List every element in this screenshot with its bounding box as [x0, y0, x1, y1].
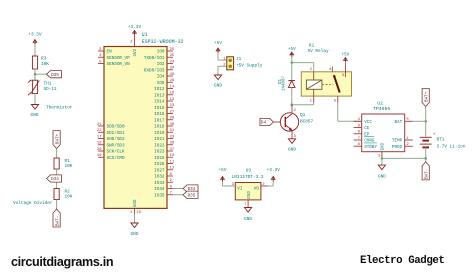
svg-text:PROG: PROG: [392, 145, 403, 150]
label K1: [309, 44, 315, 49]
svg-text:BAT+: BAT+: [424, 91, 429, 102]
svg-text:+3.3V: +3.3V: [267, 168, 281, 173]
relay pin 5 (switch): [334, 96, 338, 103]
pin 14 IO12: [154, 85, 175, 92]
pin 2 PROG (U2): [392, 143, 413, 150]
svg-text:D35: D35: [51, 73, 59, 78]
wire +5V to U3 VI: [223, 182, 236, 187]
svg-text:IO26: IO26: [154, 162, 165, 167]
label Q1: [300, 113, 306, 118]
junction collector node: [291, 103, 294, 106]
ground (U1): [131, 223, 139, 237]
svg-text:TXD0/IO1: TXD0/IO1: [144, 56, 165, 61]
label TP4056: [373, 106, 390, 112]
power +5V (relay coil): [288, 47, 296, 57]
svg-text:CE: CE: [364, 126, 370, 131]
pin 22 SDI/SD1: [97, 129, 125, 136]
svg-text:12: 12: [170, 167, 175, 171]
svg-text:14: 14: [170, 85, 175, 89]
pin 36 IO22: [154, 142, 175, 149]
wire battery to GND rail: [425, 147, 427, 162]
net label D4: [260, 118, 274, 125]
svg-text:+5V: +5V: [288, 47, 296, 52]
pin 8 CE (U2): [354, 124, 370, 131]
svg-text:IO35: IO35: [154, 193, 165, 198]
svg-text:28: 28: [170, 117, 175, 121]
net label BAT- (divider): [53, 209, 60, 227]
pin GND name (U2): [382, 142, 386, 150]
relay blade: [333, 75, 340, 93]
svg-text:37: 37: [170, 148, 175, 152]
pin 3V3 name: [134, 48, 138, 56]
wire TH1 to GND: [34, 94, 36, 105]
wire +3.3V to R3: [34, 45, 36, 57]
svg-text:IO21: IO21: [154, 137, 165, 142]
ground (U2): [378, 165, 386, 179]
svg-text:TEMP: TEMP: [392, 139, 403, 144]
pin 37 IO23: [154, 148, 175, 155]
wire J1 pin2 to GND: [218, 66, 227, 75]
relay coil pin 2: [310, 68, 314, 80]
pin 2 number (Q1): [294, 109, 297, 113]
svg-text:IO14: IO14: [154, 100, 165, 105]
svg-text:13: 13: [170, 98, 175, 102]
net label BAT- (battery): [422, 162, 429, 180]
power +5V (relay COM): [341, 53, 349, 63]
svg-text:BAT+: BAT+: [55, 133, 60, 144]
relay pin 4 (NC): [329, 67, 333, 73]
svg-text:IO25: IO25: [154, 156, 165, 161]
wire IO35 to D35 label: [173, 194, 183, 196]
pin 21 SDO/SD0: [97, 123, 125, 130]
svg-text:IO32: IO32: [154, 175, 165, 180]
connector J1: [223, 57, 234, 70]
wire D4 to Q1 base: [274, 121, 286, 123]
pin 7 CHRG (U2): [354, 137, 375, 144]
svg-text:+: +: [433, 133, 436, 138]
pin 24 IO2: [157, 60, 175, 67]
svg-text:3.7V Li-ion: 3.7V Li-ion: [437, 144, 466, 149]
wire gnd stub (U2): [381, 158, 383, 165]
net label D34 (U1): [183, 185, 198, 192]
wire to D35 label: [35, 73, 47, 75]
pin 25 IO0: [157, 48, 175, 55]
svg-text:BAT-: BAT-: [55, 216, 60, 226]
regulator U3 body: [235, 183, 261, 200]
svg-text:10: 10: [170, 154, 175, 158]
pin 23 IO15: [154, 104, 175, 111]
svg-text:Thermistor: Thermistor: [46, 105, 73, 110]
pin 26 IO4: [157, 73, 175, 80]
pin 35 TXD0/IO1: [144, 54, 175, 61]
svg-text:IO33: IO33: [154, 181, 165, 186]
label BC857: [300, 120, 314, 125]
wire U2 GND rail: [382, 157, 426, 159]
svg-text:23: 23: [170, 104, 175, 108]
svg-text:U1: U1: [142, 32, 148, 38]
svg-text:VCC: VCC: [364, 120, 372, 125]
pin 19 SCS/CMD: [97, 154, 125, 161]
title circuitdiagrams.in: [11, 255, 113, 269]
relay K1 body: [301, 72, 351, 96]
svg-text:TH1: TH1: [44, 82, 52, 87]
svg-text:GND: GND: [248, 191, 252, 199]
pin 4 SENSOR_VP: [98, 54, 130, 61]
svg-text:GND: GND: [244, 217, 252, 222]
svg-text:+5V Supply: +5V Supply: [236, 64, 263, 69]
wire U1 GND: [134, 208, 136, 223]
svg-text:3V3: 3V3: [134, 48, 138, 56]
pin GND name (U1): [134, 199, 138, 207]
junction coil/diode top: [291, 61, 294, 64]
svg-text:30: 30: [170, 123, 175, 127]
svg-text:SD-11: SD-11: [44, 87, 58, 92]
svg-text:VI: VI: [237, 186, 243, 191]
svg-text:U2: U2: [377, 101, 383, 107]
svg-text:K1: K1: [309, 44, 315, 49]
svg-text:21: 21: [97, 123, 102, 127]
ground (U3): [244, 208, 252, 223]
svg-text:31: 31: [170, 129, 175, 133]
power +5V (U3): [219, 168, 227, 181]
junction U2 GND: [381, 157, 384, 160]
svg-text:SHD/SD2: SHD/SD2: [107, 137, 125, 142]
label U2: [377, 101, 383, 107]
pin 30 IO18: [154, 123, 175, 130]
svg-text:10K: 10K: [65, 164, 73, 169]
svg-text:BT1: BT1: [437, 138, 445, 143]
svg-text:Electro Gadget: Electro Gadget: [360, 255, 444, 267]
net label BAT+ (battery): [422, 89, 429, 107]
transistor Q1 BC857: [280, 113, 298, 131]
svg-text:15: 15: [137, 211, 142, 215]
svg-text:GND: GND: [134, 199, 138, 207]
svg-text:IO5: IO5: [157, 81, 165, 86]
label ESP32-WROOM-32: [142, 39, 184, 45]
wire Q1 collector: [291, 105, 293, 114]
svg-text:R3: R3: [41, 57, 47, 62]
svg-text:EN: EN: [107, 50, 113, 55]
svg-text:16: 16: [170, 92, 175, 96]
wire Q1 emitter: [291, 130, 293, 139]
power +3.3V (thermistor branch): [28, 32, 42, 44]
resistor R3: [32, 56, 49, 69]
svg-text:U3: U3: [246, 169, 252, 174]
svg-text:circuitdiagrams.in: circuitdiagrams.in: [11, 255, 113, 269]
pin 7 IO35: [154, 192, 173, 199]
svg-text:SDI/SD1: SDI/SD1: [107, 131, 125, 136]
wire +5V down to coil/diode: [292, 57, 314, 72]
pin 16 IO13: [154, 92, 175, 99]
pin 3 number (Q1): [294, 135, 297, 139]
svg-text:22: 22: [97, 129, 102, 133]
svg-text:TP4056: TP4056: [373, 106, 390, 112]
svg-text:IO34: IO34: [154, 187, 165, 192]
svg-text:GND: GND: [378, 175, 386, 180]
op-amp U2 body (TP4056): [362, 114, 405, 152]
svg-text:GND: GND: [214, 84, 222, 89]
svg-text:27: 27: [170, 110, 175, 114]
svg-text:ESP32-WROOM-32: ESP32-WROOM-32: [142, 39, 184, 45]
svg-text:34: 34: [170, 67, 175, 71]
svg-text:GND: GND: [382, 142, 386, 150]
label LM1117DT-3.3: [232, 175, 264, 180]
svg-text:IO19: IO19: [154, 131, 165, 136]
svg-text:IO12: IO12: [154, 87, 165, 92]
pin 9 EP (U2): [354, 131, 370, 138]
pin 29 IO5: [157, 79, 175, 86]
power +5V (J1): [214, 41, 222, 53]
resistor R1: [54, 158, 73, 169]
relay coil pin 1: [310, 89, 314, 103]
relay coil: [306, 80, 322, 89]
svg-text:IO18: IO18: [154, 125, 165, 130]
relay dashed link: [322, 83, 334, 85]
svg-text:5V Relay: 5V Relay: [308, 49, 329, 54]
pin 11 IO26: [154, 160, 175, 167]
svg-text:SWP/SD3: SWP/SD3: [107, 143, 125, 148]
svg-text:IO27: IO27: [154, 168, 165, 173]
label +5V Supply: [236, 64, 263, 69]
wire BAT+ down to battery: [425, 107, 427, 137]
svg-text:33: 33: [170, 135, 175, 139]
label 3.7V Li-ion: [437, 144, 466, 149]
pin 31 IO19: [154, 129, 175, 136]
svg-text:D35: D35: [188, 193, 196, 198]
resistor R2: [54, 189, 73, 200]
pin 1 number (U1 GND): [130, 211, 142, 215]
pin 28 IO17: [154, 117, 175, 124]
svg-text:1N4007: 1N4007: [283, 75, 287, 91]
power +3.3V (U3): [267, 168, 281, 181]
wire relay pin5 to U2 VCC: [338, 103, 362, 121]
pin 3 (U2 GND): [378, 152, 382, 159]
svg-text:+3.3V: +3.3V: [128, 25, 142, 30]
pin 18 SWP/SD3: [97, 142, 125, 149]
svg-text:19: 19: [97, 154, 102, 158]
pin 33 IO21: [154, 135, 175, 142]
junction battery GND: [424, 157, 427, 160]
svg-text:Voltage Divider: Voltage Divider: [13, 201, 53, 206]
svg-text:20: 20: [97, 148, 102, 152]
svg-text:BC857: BC857: [300, 120, 314, 125]
wire coil pin1 to junction: [292, 103, 314, 104]
battery BT1: [420, 133, 436, 148]
ground (J1): [214, 75, 222, 89]
svg-text:VO: VO: [254, 186, 260, 191]
svg-text:RXD0/IO3: RXD0/IO3: [144, 68, 165, 73]
label Thermistor: [46, 105, 73, 110]
net label D35: [47, 71, 62, 78]
ground (Q1): [288, 139, 296, 153]
wire R3 to TH1: [34, 69, 36, 81]
wire U2 BAT to battery rail: [413, 120, 426, 122]
junction BAT+ node: [424, 120, 427, 123]
pin 1 (U3 GND): [244, 200, 248, 208]
svg-text:36: 36: [170, 142, 175, 146]
svg-text:IO15: IO15: [154, 106, 165, 111]
pin 8 IO32: [154, 173, 173, 180]
svg-text:10K: 10K: [65, 194, 73, 199]
svg-text:24: 24: [170, 60, 175, 64]
label U3: [246, 169, 252, 174]
svg-text:IO23: IO23: [154, 150, 165, 155]
net label BAT+ (divider): [53, 131, 60, 149]
svg-text:+5V: +5V: [214, 41, 222, 46]
op-amp U1 body (ESP32-WROOM-32): [104, 47, 167, 209]
svg-text:BAT: BAT: [394, 120, 402, 125]
wire +5V to J1 pin1: [218, 53, 227, 60]
svg-text:17: 17: [97, 135, 102, 139]
wire R1 to R2: [56, 169, 58, 189]
svg-text:J1: J1: [236, 57, 242, 62]
svg-text:Q1: Q1: [300, 113, 306, 118]
svg-text:GND: GND: [131, 232, 139, 237]
svg-text:18: 18: [97, 142, 102, 146]
svg-text:GND: GND: [31, 113, 39, 118]
power +3.3V (U1 pin 2): [128, 25, 142, 36]
svg-text:IO4: IO4: [157, 75, 165, 80]
pin 27 IO16: [154, 110, 175, 117]
title Electro Gadget: [360, 255, 444, 267]
svg-text:STDBY: STDBY: [364, 145, 377, 150]
svg-text:SDO/SD0: SDO/SD0: [107, 125, 125, 130]
relay pin 3 (COM): [342, 63, 346, 78]
svg-text:10K: 10K: [41, 62, 49, 67]
svg-text:SENSOR_VN: SENSOR_VN: [107, 62, 131, 67]
label U1: [142, 32, 148, 38]
net label D35 (U1): [183, 191, 198, 198]
pin 1 TEMP (U2): [392, 137, 413, 144]
svg-text:+3.3V: +3.3V: [28, 32, 42, 37]
wire junction to D34 label: [47, 178, 57, 180]
svg-text:IO16: IO16: [154, 112, 165, 117]
pin 5 BAT (U2): [394, 118, 412, 125]
pin 20 SCK/CLK: [97, 148, 125, 155]
pin 17 SHD/SD2: [97, 135, 125, 142]
pin 6 STDBY (U2): [354, 143, 378, 150]
svg-text:IO0: IO0: [157, 50, 165, 55]
wire diode branch: [291, 63, 293, 80]
pin 5 SENSOR_VN: [98, 60, 130, 67]
junction node D34: [55, 177, 58, 180]
svg-text:LM1117DT-3.3: LM1117DT-3.3: [232, 175, 264, 180]
diode D1 1N4007: [279, 75, 295, 91]
pin 13 IO14: [154, 98, 175, 105]
pin 2 number: [130, 41, 133, 45]
wire IO34 to D34 label: [173, 188, 183, 190]
svg-text:+5V: +5V: [341, 53, 349, 58]
pin 3 EN: [98, 48, 112, 55]
junction node D35: [34, 73, 37, 76]
pin 12 IO27: [154, 167, 175, 174]
svg-text:IO13: IO13: [154, 93, 165, 98]
svg-text:IO17: IO17: [154, 118, 165, 123]
svg-text:D4: D4: [261, 121, 267, 126]
pin 10 IO25: [154, 154, 175, 161]
wire diode to collector junction: [291, 87, 293, 104]
label 5V Relay: [308, 49, 329, 54]
svg-text:D34: D34: [51, 177, 59, 182]
svg-text:35: 35: [170, 54, 175, 58]
svg-text:25: 25: [170, 48, 175, 52]
wire BAT+ to R1: [56, 149, 58, 158]
svg-text:GND: GND: [288, 148, 296, 153]
svg-text:IO22: IO22: [154, 143, 165, 148]
svg-text:BAT-: BAT-: [424, 169, 429, 179]
pin 3 VI (U3): [232, 183, 243, 192]
svg-text:SCS/CMD: SCS/CMD: [107, 156, 125, 161]
pin 34 RXD0/IO3: [144, 67, 175, 74]
thermistor TH1: [28, 80, 57, 95]
pin 9 IO33: [154, 179, 173, 186]
label J1: [236, 57, 242, 62]
label BT1: [437, 138, 445, 143]
ground (thermistor): [31, 105, 39, 119]
svg-text:IO2: IO2: [157, 62, 165, 67]
svg-text:26: 26: [170, 73, 175, 77]
wire +3.3V to U1 3V3: [134, 35, 136, 46]
svg-text:29: 29: [170, 79, 175, 83]
net label D34: [47, 175, 62, 182]
wire R2 to BAT-: [56, 200, 58, 210]
svg-text:11: 11: [170, 160, 175, 164]
pin 6 IO34: [154, 185, 173, 192]
svg-text:SCK/CLK: SCK/CLK: [107, 150, 125, 155]
pin 2 VO (U3): [254, 183, 268, 192]
svg-text:SENSOR_VP: SENSOR_VP: [107, 56, 131, 61]
pin GND name (U3): [248, 191, 252, 199]
svg-text:+5V: +5V: [219, 168, 227, 173]
pin 4 VCC (U2): [354, 118, 373, 125]
wire U3 VO to +3.3V: [268, 182, 273, 187]
label Voltage Divider: [13, 201, 53, 206]
pin 1 number (Q1 base): [280, 119, 283, 123]
